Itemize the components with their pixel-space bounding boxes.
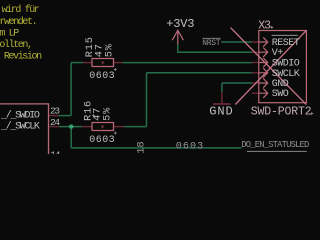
svg-text:0603: 0603: [89, 135, 115, 146]
svg-text:Revision: Revision: [4, 51, 42, 63]
wire segments (green): [59, 42, 252, 148]
ground bar: [213, 103, 231, 105]
pin stub X3 SWCLK: [252, 72, 259, 74]
svg-text:NRST: NRST: [202, 39, 221, 48]
wire bottom to DO_EN_STATUSLED: [71, 147, 241, 149]
anchor cross R16 0603: [114, 132, 117, 135]
pin stub X3 SWO: [252, 92, 259, 94]
anchor cross R16 ref: [92, 114, 95, 117]
pin stub U? pin23: [48, 115, 58, 117]
connector X3 box: [259, 31, 307, 103]
resistor R15 body: [92, 59, 114, 67]
power symbol +3V3 arrow: [172, 30, 183, 44]
IC U? box corner (left): [0, 104, 49, 154]
wire SWCLK row to pin: [147, 72, 252, 74]
underline below DO_EN_STATUSLED: [247, 150, 307, 152]
comment text (German, cut off at left edge): [0, 4, 42, 63]
svg-text:SWO: SWO: [272, 89, 289, 100]
GND stem lower: [221, 92, 223, 103]
svg-text:DO_EN_STATUSLED: DO_EN_STATUSLED: [241, 140, 309, 150]
anchor cross R15 0603: [114, 68, 117, 71]
lead R15 left: [83, 62, 92, 64]
svg-text:0603: 0603: [89, 71, 115, 82]
pins / leads (dark red): [48, 42, 259, 128]
wire vertical pin23 to R15 row: [70, 63, 72, 116]
lead R16 left: [82, 126, 93, 128]
wire pin23: [59, 115, 72, 117]
wire R15 left to vertical: [71, 62, 83, 64]
anchor cross SWD-PORT2: [310, 112, 313, 115]
svg-text:GND: GND: [209, 105, 233, 119]
wire vertical R16 to SWCLK row: [146, 73, 148, 127]
pin stub X3 RESET: [252, 41, 259, 43]
wire NRST to RESET pin: [221, 41, 252, 43]
wire R15 right to SWDIO pin: [123, 62, 252, 64]
wire GND row: [222, 82, 252, 84]
svg-text:_/_SWCLK: _/_SWCLK: [0, 121, 40, 133]
pin arrows X3: [260, 37, 268, 98]
wire GND stem upper: [221, 83, 223, 92]
pin stub X3 V+: [252, 51, 259, 53]
svg-text:5%: 5%: [102, 107, 114, 121]
svg-text:_/_SWDIO: _/_SWDIO: [0, 110, 40, 122]
svg-text:5%: 5%: [104, 43, 116, 57]
svg-text:0603: 0603: [176, 142, 204, 153]
DNP cross diagonal B: [231, 28, 307, 105]
RESET overbar: [272, 34, 298, 36]
lead R15 right: [114, 62, 123, 64]
svg-text:m LP: m LP: [0, 28, 19, 39]
anchor cross X3: [270, 26, 273, 29]
X3 pin names: [272, 38, 300, 100]
wire junction down: [70, 127, 72, 148]
svg-text:18: 18: [135, 141, 147, 153]
label NRST: [202, 39, 221, 48]
anchor cross R15: [101, 61, 104, 64]
svg-text:rwendet.: rwendet.: [0, 16, 36, 28]
svg-text:wird für: wird für: [2, 4, 40, 16]
pin stub X3 GND: [252, 82, 259, 84]
svg-text:X3: X3: [258, 20, 271, 33]
svg-text:+3V3: +3V3: [166, 17, 194, 31]
DNP cross diagonal A: [235, 31, 306, 105]
wire R16 right to vertical: [124, 126, 146, 128]
pin stub U? pin24: [48, 126, 59, 128]
wire +3V3 down and V+ row: [178, 45, 252, 53]
lead R16 right: [114, 126, 125, 128]
svg-text:ollten,: ollten,: [0, 39, 32, 51]
pin stub X3 SWDIO: [252, 62, 259, 64]
anchor cross R16: [101, 125, 104, 128]
resistor R16 body: [92, 123, 114, 131]
wire pin24 to R16: [59, 126, 81, 128]
junction pin24: [69, 124, 73, 128]
svg-text:SWD-PORT2: SWD-PORT2: [251, 105, 312, 118]
